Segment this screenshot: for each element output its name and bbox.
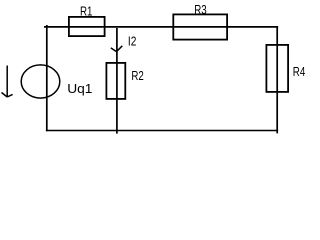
voltage arrow Uq1 (down) <box>2 66 13 98</box>
svg-text:R1: R1 <box>80 5 92 19</box>
voltage source Uq1 circle <box>21 65 60 98</box>
resistor R1 <box>69 17 105 36</box>
svg-text:I2: I2 <box>128 35 136 49</box>
svg-text:Uq1: Uq1 <box>67 81 92 96</box>
wire top horizontal <box>44 26 278 28</box>
wire middle vertical branch (through R2) <box>116 28 118 134</box>
resistor R4 <box>266 45 288 92</box>
resistor R3 <box>173 14 227 39</box>
svg-text:R3: R3 <box>194 4 206 18</box>
wire bottom horizontal <box>46 129 278 131</box>
svg-text:R2: R2 <box>131 70 143 84</box>
wire right vertical branch (through R4) <box>276 26 278 133</box>
resistor R2 <box>106 63 125 99</box>
current arrow I2 (down) <box>111 46 123 52</box>
wire left vertical branch <box>46 25 48 131</box>
svg-text:R4: R4 <box>293 66 306 80</box>
